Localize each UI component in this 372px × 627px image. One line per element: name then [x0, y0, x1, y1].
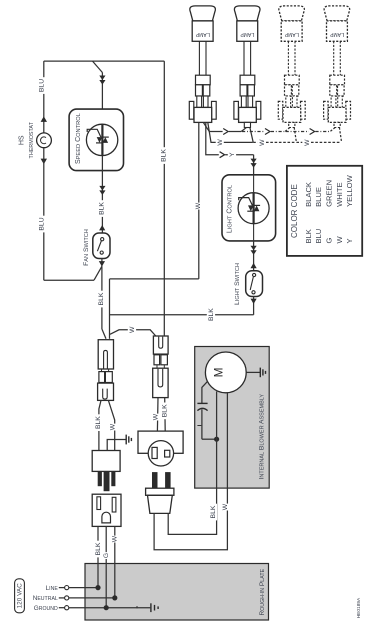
svg-text:LIGHT CONTROL: LIGHT CONTROL: [227, 185, 234, 233]
svg-text:BLACK: BLACK: [304, 182, 313, 207]
light control triac circle: [238, 193, 269, 224]
triac gate lead: [87, 129, 101, 137]
svg-text:HS: HS: [18, 135, 25, 145]
blower receptacle face circle: [148, 441, 173, 466]
wire: ground lead from plug: [107, 440, 126, 451]
connector arrow below fan switch (down): [101, 259, 103, 267]
svg-text:GREEN: GREEN: [325, 180, 334, 207]
motor M circle: [205, 352, 246, 393]
svg-text:W: W: [222, 503, 229, 510]
wire: W from lamp1 down: [198, 122, 200, 279]
wire BLU label upper: [37, 77, 45, 94]
wire: below speed control: [101, 156, 103, 234]
wire: speed control main vertical: [101, 73, 103, 125]
svg-text:M: M: [211, 367, 225, 377]
wall outlet face: [92, 494, 121, 526]
svg-text:BLU: BLU: [39, 217, 46, 230]
wire: BLU below thermostat down to corner: [43, 148, 45, 281]
wire: lamp row W dashed: [253, 141, 257, 143]
svg-text:Y: Y: [345, 238, 354, 243]
inline connector C1 (box 2): [99, 372, 105, 383]
wire: motor to capacitor: [202, 381, 208, 403]
wire: diagonal tap from top bus to speed control: [93, 61, 103, 72]
thick wire through triac: [101, 125, 103, 156]
outlet slot left: [97, 497, 101, 510]
junction node: [214, 437, 219, 442]
light switch S2: [246, 271, 263, 297]
svg-text:BLK: BLK: [98, 292, 105, 305]
connector arrow into thermostat (up): [41, 116, 47, 122]
wire: lamp row Y dashed to lamp4: [286, 131, 309, 133]
wire: lamp2 right lead: [250, 128, 253, 143]
svg-text:BLK: BLK: [161, 404, 168, 417]
svg-text:FAN SWITCH: FAN SWITCH: [83, 229, 90, 266]
wire: Y feed from lamp1 to light control: [206, 122, 219, 154]
connector arrow out of thermostat (down): [41, 159, 47, 165]
wire: lamp4 right lead (dashed): [339, 128, 341, 143]
svg-text:W: W: [153, 413, 160, 420]
triac symbol Q1: [97, 137, 103, 143]
svg-text:BLU: BLU: [39, 79, 46, 92]
svg-text:BLK: BLK: [160, 149, 167, 162]
appliance plug box: [92, 451, 120, 472]
svg-text:THERMOSTAT: THERMOSTAT: [29, 121, 35, 158]
inline connector C2 (box 2): [154, 355, 160, 365]
disconnect symbol (double arrows): [99, 76, 105, 81]
svg-text:W: W: [112, 535, 119, 542]
connector arrow below light switch (down): [253, 297, 255, 315]
inline connector C2 (box 3): [153, 368, 168, 397]
wire: BLK right vertical from top bus down to connector C2: [163, 61, 165, 336]
svg-text:LINE: LINE: [46, 585, 59, 592]
svg-text:COLOR CODE: COLOR CODE: [290, 184, 299, 238]
svg-text:G: G: [103, 553, 110, 558]
wire: down into light control: [253, 155, 255, 175]
svg-text:BLK: BLK: [304, 229, 313, 243]
connector arrow into light switch (up): [251, 263, 257, 268]
svg-text:W: W: [129, 326, 136, 333]
svg-text:W: W: [259, 139, 266, 146]
inline connector C1 (box 1): [98, 340, 113, 369]
disconnect symbol above light control: [251, 159, 257, 164]
internal blower assembly enclosure: [195, 347, 270, 489]
triac symbol Q2: [248, 205, 254, 211]
wire: blower cord W: [154, 488, 227, 550]
fan switch S1: [93, 233, 110, 259]
blower receptacle body: [138, 431, 183, 453]
lamp assembly LAMP2: [234, 6, 261, 123]
disconnect symbol below speed control: [99, 186, 105, 191]
wire: motor W lead: [226, 392, 228, 488]
120 VAC label: [15, 579, 25, 613]
svg-text:LIGHT SWITCH: LIGHT SWITCH: [234, 263, 241, 305]
thermostat HS circle: [37, 133, 52, 148]
svg-text:SPEED CONTROL: SPEED CONTROL: [75, 113, 82, 164]
svg-text:ROUGH-IN PLATE: ROUGH-IN PLATE: [259, 568, 266, 615]
svg-text:YELLOW: YELLOW: [345, 174, 354, 206]
wire: C1 out right W: [108, 400, 114, 450]
wire: lamp row W from lamp1: [208, 122, 216, 142]
wire: C2 out left W: [156, 398, 159, 432]
wire: W tap diagonal to connector C2: [110, 330, 156, 336]
wire: fan switch output down: [101, 266, 103, 329]
blower plug body: [146, 488, 174, 495]
wire: blower cord BLK: [168, 488, 216, 534]
outlet slot right: [112, 497, 116, 512]
svg-text:BLUE: BLUE: [314, 187, 323, 207]
wire: BLU left vertical (top bus to thermostat): [43, 61, 45, 133]
lamp3 stub (dashed): [289, 122, 295, 127]
wire: BLU bottom horizontal to fan switch diagonal: [44, 279, 94, 281]
disconnect symbol below light control: [251, 246, 257, 251]
svg-text:BLK: BLK: [210, 505, 217, 518]
lamp assembly LAMP3 (optional, dashed): [278, 6, 305, 123]
speed control triac circle: [86, 124, 117, 155]
wire: slant into connector C1: [102, 329, 106, 339]
wire: lamp3 left lead (dashed): [285, 128, 290, 132]
wire stubs between C2 boxes: [156, 353, 158, 356]
rough-in plate: [85, 564, 269, 621]
light control box U2: [222, 175, 276, 241]
wire: outlet G down to ground: [105, 526, 107, 607]
svg-text:W: W: [304, 139, 311, 146]
wire: W horizontal to left: [110, 278, 199, 280]
wire: C2 out right BLK: [164, 398, 167, 432]
wire: motor BLK lead: [216, 392, 218, 489]
receptacle slot left: [152, 447, 157, 458]
wire: motor ground lead: [246, 371, 260, 373]
svg-text:WHITE: WHITE: [335, 182, 344, 206]
triac gate lead: [239, 198, 253, 206]
svg-text:BLK: BLK: [95, 416, 102, 429]
svg-text:INTERNAL BLOWER ASSEMBLY: INTERNAL BLOWER ASSEMBLY: [258, 394, 265, 480]
svg-text:HE0189A: HE0189A: [356, 597, 362, 618]
inline connector C2 (box 1): [153, 336, 168, 354]
svg-text:G: G: [325, 238, 334, 244]
wire: diagonal BLU up to fan switch output node: [94, 266, 102, 280]
wire: capacitor down to junction: [201, 409, 203, 439]
svg-text:BLK: BLK: [208, 308, 215, 321]
wire: lamp4 left lead (dashed): [330, 128, 335, 132]
plug prong right: [112, 471, 115, 485]
wire: top bus BLU/BLK horizontal: [44, 60, 165, 62]
wire: lamp3 right lead (dashed): [294, 128, 296, 143]
plug prong middle (ground): [104, 471, 109, 490]
ground symbol (motor): [259, 368, 261, 378]
wire: lamp row Y dashed to lamp3: [242, 131, 264, 133]
wire: C1 out left BLK: [99, 400, 101, 450]
svg-text:W: W: [110, 423, 117, 430]
receptacle slot right: [165, 450, 170, 457]
svg-text:W: W: [335, 236, 344, 244]
svg-text:BLK: BLK: [99, 202, 106, 215]
wire stubs between C1 boxes: [101, 369, 103, 372]
wire: lamp2 left lead: [241, 128, 246, 132]
speed control box U1: [69, 109, 123, 171]
svg-text:NEUTRAL: NEUTRAL: [33, 595, 58, 602]
svg-text:BLK: BLK: [95, 542, 102, 555]
wire: light switch output horizontal BLK: [110, 314, 254, 316]
plug prong left: [98, 471, 101, 485]
blower plug prongs: [152, 473, 157, 489]
capacitor C1: [197, 402, 207, 404]
wire: outlet BLK down to line: [97, 526, 99, 587]
lamp assembly LAMP1: [189, 6, 216, 123]
lamp2 stub: [244, 122, 250, 127]
svg-text:BLU: BLU: [314, 229, 323, 244]
lamp4 stub (dashed): [334, 122, 340, 127]
lamp assembly LAMP4 (optional, dashed): [324, 6, 351, 123]
wire: lamp row Y (solid part): [203, 122, 222, 131]
wire: W vertical down to connector C1: [109, 279, 111, 339]
wire below light control: [253, 241, 255, 271]
ground symbol (rough-in): [150, 603, 152, 612]
color code legend box: [287, 166, 362, 256]
svg-text:W: W: [217, 139, 224, 146]
svg-text:120 VAC: 120 VAC: [17, 583, 24, 608]
ground symbol (plug): [125, 435, 127, 445]
svg-text:GROUND: GROUND: [34, 605, 58, 612]
svg-text:Y: Y: [229, 152, 236, 157]
wire: outlet W down to neutral: [114, 526, 116, 598]
connector arrow into fan switch (up): [99, 225, 105, 230]
outlet ground hole: [102, 512, 111, 523]
inline connector C1 (box 3): [98, 383, 114, 400]
svg-text:W: W: [195, 202, 202, 209]
